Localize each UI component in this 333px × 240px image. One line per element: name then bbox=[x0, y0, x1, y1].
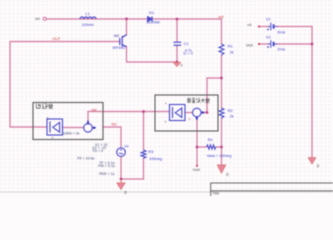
svg-text:PER = 1u: PER = 1u bbox=[99, 172, 114, 176]
svg-text:Title: Title bbox=[212, 192, 219, 196]
ground at right rail bbox=[308, 158, 316, 165]
wire opamp2 to E2 circle bbox=[185, 112, 192, 114]
svg-text:Value = 100meg: Value = 100meg bbox=[207, 154, 232, 158]
svg-text:C1: C1 bbox=[184, 41, 190, 46]
wire Rx right bbox=[216, 146, 222, 148]
V1 source symbol bbox=[267, 23, 277, 31]
svg-text:R3: R3 bbox=[148, 149, 154, 154]
ground at source rail bbox=[173, 62, 181, 67]
pulse parameters V4 bbox=[77, 143, 115, 176]
wire R3 bottom bbox=[143, 158, 145, 179]
svg-text:vin: vin bbox=[35, 16, 40, 21]
opamp box U2 bbox=[170, 105, 186, 121]
svg-text:OUT: OUT bbox=[52, 37, 61, 41]
svg-text:vd: vd bbox=[247, 23, 251, 27]
wire right rail down bbox=[311, 27, 313, 158]
net labels red bbox=[52, 15, 224, 126]
wire V2 left stub bbox=[259, 43, 268, 45]
block title comparator (drawn CJK 比较器) bbox=[36, 104, 53, 109]
wire source to ground rail bbox=[127, 47, 178, 63]
svg-text:V1: V1 bbox=[266, 17, 271, 22]
ground at Rx node bbox=[217, 165, 226, 174]
wire corner down to R1 bbox=[221, 19, 223, 44]
wire V1 right to rail bbox=[277, 26, 312, 28]
svg-text:R1: R1 bbox=[228, 43, 234, 48]
wire Vref stub bbox=[196, 147, 198, 166]
resistor R2 bbox=[219, 108, 224, 118]
resistor R3 bbox=[141, 150, 146, 158]
wire R3 top bbox=[143, 112, 145, 151]
svg-text:L1: L1 bbox=[86, 11, 91, 16]
wire V1 left stub bbox=[259, 26, 268, 28]
svg-text:M2: M2 bbox=[114, 34, 119, 38]
inductor L1 bbox=[80, 17, 96, 19]
svg-text:100mH: 100mH bbox=[82, 23, 94, 27]
wire feedback up and right bbox=[207, 78, 222, 113]
E source circle in comparator bbox=[84, 121, 97, 133]
svg-text:100meg: 100meg bbox=[149, 157, 162, 161]
wire out rail to amplifier block bbox=[88, 111, 170, 113]
svg-text:V2: V2 bbox=[266, 34, 271, 39]
wire drain branch bbox=[126, 19, 128, 35]
stub end dots bbox=[196, 26, 260, 167]
svg-text:V4: V4 bbox=[124, 144, 129, 148]
svg-text:TD = 0: TD = 0 bbox=[92, 149, 103, 153]
gain box U1 bbox=[47, 119, 63, 135]
page border bottom bbox=[0, 191, 333, 193]
wire IN2 pin to V4 bbox=[103, 127, 121, 148]
E2 source circle bbox=[193, 108, 205, 120]
svg-text:TR = 10.6u: TR = 10.6u bbox=[77, 156, 95, 160]
svg-text:PW = 0.1u: PW = 0.1u bbox=[98, 164, 115, 168]
wire C1 bottom to ground bbox=[176, 46, 178, 62]
amplifier block box bbox=[155, 95, 218, 131]
svg-text:IC = 0: IC = 0 bbox=[183, 52, 193, 56]
wire V2 right bbox=[277, 43, 312, 45]
svg-text:5Vdc: 5Vdc bbox=[277, 31, 285, 35]
wire gain box to E circle bbox=[63, 127, 84, 129]
terminal vin circle bbox=[43, 17, 46, 20]
component labels blue bbox=[82, 10, 286, 161]
wire R2 down to Rx node bbox=[221, 118, 223, 165]
svg-text:GAIN = 1k: GAIN = 1k bbox=[63, 131, 80, 135]
wire C1 top branch bbox=[176, 19, 178, 42]
wire top rail vin to corner bbox=[47, 18, 222, 20]
wire Rx left bbox=[197, 146, 206, 148]
svg-text:out: out bbox=[218, 15, 224, 19]
svg-text:2k: 2k bbox=[230, 115, 234, 119]
svg-text:R2: R2 bbox=[228, 108, 234, 113]
wire gate rail bbox=[10, 42, 120, 128]
resistor Rx bbox=[207, 145, 216, 149]
mosfet M2 bbox=[120, 35, 127, 47]
svg-text:Rx: Rx bbox=[208, 137, 213, 142]
wire R1 to R2 rail bbox=[221, 55, 223, 108]
wire E2 to junction bbox=[201, 112, 207, 114]
svg-text:Vref: Vref bbox=[193, 167, 201, 172]
comparator block box bbox=[33, 103, 103, 140]
svg-text:2Vdc: 2Vdc bbox=[277, 48, 285, 52]
svg-text:Vref: Vref bbox=[246, 43, 254, 48]
wire E2 bottom pin down bbox=[196, 117, 198, 147]
svg-text:MUR460: MUR460 bbox=[147, 21, 160, 25]
ground at V4 bbox=[117, 180, 126, 190]
diode D1 bbox=[148, 16, 152, 21]
capacitor C1 bbox=[174, 42, 182, 45]
wire V4 bottom to ground node bbox=[121, 156, 144, 179]
V2 source symbol bbox=[267, 40, 277, 48]
V4 pulse source bbox=[117, 148, 126, 157]
pin texts tiny bbox=[47, 101, 191, 139]
svg-text:IRF540: IRF540 bbox=[113, 46, 125, 50]
block title amplifier (drawn CJK 调整放大器) bbox=[188, 98, 210, 103]
port and ground labels bbox=[35, 16, 320, 196]
svg-text:IN2: IN2 bbox=[111, 122, 117, 126]
resistor R1 bbox=[219, 44, 224, 55]
svg-text:D1: D1 bbox=[149, 10, 155, 15]
wire E circle up to out rail bbox=[87, 112, 89, 124]
title block bbox=[211, 183, 333, 196]
svg-text:2k: 2k bbox=[230, 50, 234, 54]
